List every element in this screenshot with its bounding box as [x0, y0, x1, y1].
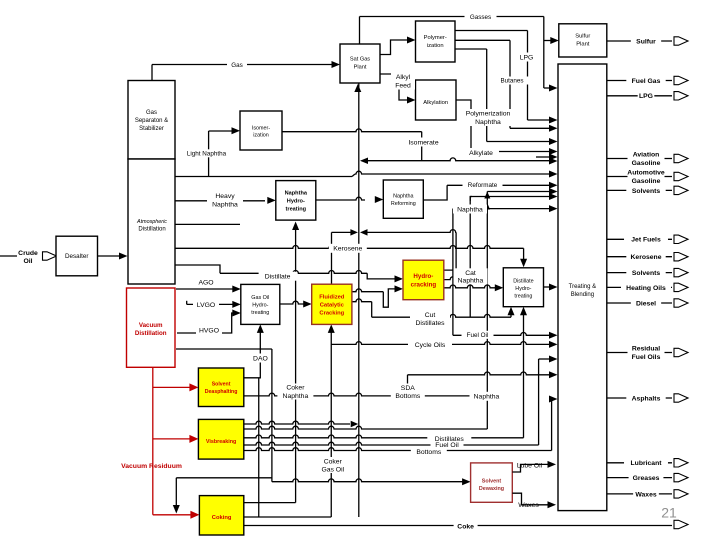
unit gas separation and stabilizer: [128, 81, 175, 160]
svg-text:Vacuum Residuum: Vacuum Residuum: [121, 463, 182, 470]
arrow alkyl feed into alkylation: [407, 97, 416, 104]
label output waxes: [633, 489, 659, 498]
arrow open output asphalts: [674, 394, 688, 402]
svg-text:Coke: Coke: [457, 524, 474, 531]
wire fuel gas feed into treating: [544, 87, 551, 89]
wire AGO: [176, 288, 233, 290]
arrow visbreaker gas into bus: [351, 421, 359, 428]
arrow naphtha into treating and blending: [549, 205, 558, 212]
wire output sulfur: [607, 40, 672, 42]
unit treating and blending: [558, 64, 607, 511]
wire polymerization naphtha drop: [486, 49, 488, 142]
arrow up naphtha join: [484, 192, 490, 199]
svg-text:Distillates: Distillates: [415, 320, 445, 327]
label output heating oils: [621, 283, 671, 292]
wire gas oil hydrotreated to fcc: [280, 301, 305, 304]
svg-text:Gas: Gas: [231, 62, 243, 69]
svg-text:Waxes: Waxes: [635, 491, 657, 498]
arrow gas bus up into sat gas plant: [354, 84, 361, 92]
svg-text:Polymer-: Polymer-: [424, 35, 447, 41]
label kerosene: [329, 244, 367, 253]
svg-text:Lubricant: Lubricant: [631, 460, 663, 467]
label coker naphtha: [277, 384, 313, 400]
wire distillate draw: [175, 265, 220, 273]
wire overhead long line to treating: [175, 176, 352, 178]
wire visbreaker naphtha row: [244, 426, 488, 429]
label output lubricant: [624, 458, 668, 467]
wire coker gas oil row: [244, 516, 332, 518]
svg-text:Oil: Oil: [23, 258, 32, 265]
wire deasphalted bottoms row: [244, 393, 487, 396]
arrow open output residual fuel oils: [674, 348, 688, 356]
label coker gas oil: [316, 457, 350, 473]
label output residual fuel oils: [628, 345, 665, 361]
svg-text:Gas Oil: Gas Oil: [251, 295, 269, 301]
arrow heavy naphtha into naphtha hydrotreating: [267, 197, 276, 204]
arrow red into coking: [190, 511, 199, 519]
svg-text:Hydro-: Hydro-: [413, 273, 433, 280]
arrow blend stub into treating and blending: [549, 154, 558, 161]
unit sat gas plant: [340, 44, 380, 83]
label vacuum residuum: [151, 465, 153, 467]
arrow open output lubricant: [674, 459, 688, 467]
svg-text:Sulfur: Sulfur: [575, 34, 590, 40]
wire naphtha blend riser: [486, 192, 488, 430]
wire coker naphtha row: [244, 502, 296, 504]
arrow overhead into treating and blending: [549, 171, 558, 178]
wire light naphtha riser: [208, 131, 210, 177]
arrow open output lpg: [674, 92, 688, 100]
arrow HVGO into gas oil hydrotreating: [232, 310, 241, 317]
wire residual riser: [538, 359, 540, 445]
label DAO: [250, 354, 270, 363]
svg-text:Greases: Greases: [633, 475, 660, 482]
wire LPG from polymerization: [455, 30, 528, 32]
svg-text:Naphtha: Naphtha: [475, 119, 501, 126]
svg-text:Residual: Residual: [632, 346, 660, 353]
label coke: [454, 522, 478, 531]
svg-text:Fuel Oils: Fuel Oils: [632, 354, 661, 361]
svg-text:Naphtha: Naphtha: [457, 206, 483, 213]
label naphtha lower: [470, 392, 504, 401]
svg-text:Solvents: Solvents: [632, 270, 661, 277]
wire asphalt riser: [551, 399, 553, 451]
arrow open output solvents: [674, 186, 688, 194]
arrow DAO up into gas oil hydrotreating: [257, 324, 264, 333]
svg-text:Coking: Coking: [212, 515, 232, 521]
wire stub from tower: [175, 223, 240, 225]
wire isomerate drop: [421, 132, 423, 161]
arrow fcc gas into bus: [350, 229, 358, 236]
svg-text:Light Naphtha: Light Naphtha: [187, 151, 227, 158]
label light naphtha: [182, 149, 232, 157]
wire isomerate collector: [362, 158, 551, 161]
label HVGO: [196, 326, 222, 334]
wire output kerosene: [607, 256, 672, 258]
svg-text:Reformate: Reformate: [468, 182, 498, 189]
svg-text:Naphtha: Naphtha: [285, 191, 308, 197]
svg-text:treating: treating: [286, 206, 307, 212]
svg-text:Naphtha: Naphtha: [474, 394, 500, 401]
wire vacuum residuum to visbreaking red: [153, 438, 192, 440]
label fuel oil lower: [431, 441, 464, 448]
wire hydrocracker to distillate hydrotreating: [444, 285, 497, 288]
wire kerosene drop to distillate hydrotreating: [523, 248, 525, 260]
svg-text:Naphtha: Naphtha: [458, 278, 484, 285]
svg-text:Sulfur: Sulfur: [636, 38, 656, 45]
wire sd bottoms drop: [258, 378, 260, 517]
svg-text:Plant: Plant: [576, 42, 590, 48]
wire coker naphtha riser: [295, 224, 297, 503]
label waxes mid: [515, 500, 542, 509]
wire output solvents: [607, 189, 672, 191]
wire HVGO: [177, 313, 233, 333]
svg-text:Feed: Feed: [395, 83, 411, 90]
arrow LPG into treating and blending: [549, 117, 558, 124]
wire reformate riser: [423, 185, 447, 200]
arrow polymerization naphtha into treating and blending: [549, 138, 558, 145]
wire output greases: [607, 477, 672, 479]
arrow red into visbreaking: [189, 435, 198, 443]
wire bottoms row: [244, 448, 552, 451]
label output aviation gasoline: [628, 151, 665, 167]
wire alkylate from alkylation: [456, 100, 471, 152]
label distillates: [427, 435, 471, 443]
svg-text:Desalter: Desalter: [65, 253, 88, 260]
unit isomerization: [240, 111, 282, 150]
svg-text:Butanes: Butanes: [500, 78, 523, 85]
svg-text:Jet Fuels: Jet Fuels: [631, 237, 661, 244]
unit polymerization: [416, 21, 456, 62]
arrow into naphtha reforming: [375, 196, 384, 203]
arrow open output jet fuels: [674, 235, 688, 243]
unit naphtha hydrotreating: [276, 181, 316, 221]
svg-text:Separaton &: Separaton &: [135, 118, 168, 124]
unit fluidized catalytic cracking: [312, 284, 352, 324]
svg-text:AGO: AGO: [198, 280, 213, 287]
wire fuel oil riser: [452, 209, 454, 336]
svg-text:Gasoline: Gasoline: [632, 160, 661, 167]
wire vacuum residuum to solvent deasphalting red: [153, 386, 192, 388]
arrow open output fuel gas: [674, 76, 688, 84]
unit solvent dewaxing: [471, 463, 513, 502]
arrow isomerate into gas bus: [360, 157, 368, 164]
wire fcc to hydrocracker: [352, 289, 383, 292]
wire hydrocracker gas to bus: [364, 230, 457, 233]
svg-text:ization: ization: [253, 132, 269, 138]
arrow open output sulfur: [674, 37, 688, 45]
wire output aviation gasoline: [607, 158, 672, 160]
wire waxes from solvent dewaxing: [512, 493, 548, 505]
wire vacuum residuum to coking red: [153, 514, 193, 516]
svg-text:Fuel Oil: Fuel Oil: [467, 332, 489, 339]
svg-text:HVGO: HVGO: [199, 328, 219, 335]
label fuel oil upper: [462, 331, 494, 339]
wire hydrocracker gas riser: [444, 232, 456, 270]
arrow LVGO into gas oil hydrotreating: [232, 301, 241, 308]
svg-text:Kerosene: Kerosene: [333, 246, 362, 253]
arrow naphtha blend into treating and blending: [549, 188, 558, 195]
svg-text:Cracking: Cracking: [319, 311, 344, 317]
wire output heating oils: [607, 286, 672, 288]
wire output jet fuels: [607, 238, 672, 240]
svg-text:treating: treating: [514, 293, 532, 299]
unit hydrocracking: [403, 260, 444, 300]
wire blend stub: [536, 156, 551, 158]
label output fuel gas: [626, 76, 665, 85]
arrow hydrocracker gas into bus: [360, 229, 368, 236]
arrow alkylate into treating and blending: [549, 148, 558, 155]
svg-text:Cycle Oils: Cycle Oils: [415, 342, 446, 349]
wire cut distillates from fcc: [352, 299, 372, 302]
svg-text:treating: treating: [251, 310, 269, 316]
svg-text:Polymerization: Polymerization: [466, 111, 511, 118]
arrow into polymerization: [407, 37, 416, 44]
svg-text:Automotive: Automotive: [627, 170, 665, 177]
svg-text:Diesel: Diesel: [636, 300, 656, 307]
node gas bus vertical: [358, 83, 360, 517]
wire fcc gas riser: [331, 232, 333, 284]
unit coking: [199, 496, 243, 535]
wire alkyl feed: [380, 74, 409, 100]
unit atmospheric distillation tower: [128, 159, 175, 284]
svg-text:Distillation: Distillation: [135, 330, 167, 337]
arrow fcc stream into hydrocracker: [395, 285, 404, 292]
unit sulfur plant: [559, 24, 607, 57]
wire lube oil from solvent dewaxing: [512, 464, 548, 472]
label output solvents: [626, 268, 665, 277]
arrow cycle oils into treating and blending: [549, 341, 558, 348]
wire cat naphtha from hydrocracker: [444, 277, 470, 280]
svg-text:Kerosene: Kerosene: [631, 254, 662, 261]
wire butanes from polymerization: [455, 39, 510, 41]
label output automotive gasoline: [628, 169, 665, 185]
wire distillates row: [244, 435, 524, 438]
wire recycle to coking row: [176, 477, 272, 479]
wire sulfur feed drop: [543, 17, 545, 89]
wire output residual fuel oils: [607, 352, 672, 354]
svg-text:Fuel Gas: Fuel Gas: [632, 78, 661, 85]
svg-text:Heavy: Heavy: [215, 193, 235, 200]
wire output solvents: [607, 272, 672, 274]
wire vacuum residuum main red: [152, 367, 154, 515]
arrow coke output: [674, 520, 688, 528]
svg-text:Fluidized: Fluidized: [319, 295, 345, 301]
wire overhead long line right part: [355, 171, 551, 174]
arrow into sulfur plant: [550, 37, 559, 44]
label cat naphtha: [454, 268, 488, 284]
svg-text:Blending: Blending: [571, 292, 594, 298]
wire polymerization naphtha from polymerization: [455, 48, 487, 50]
wire LPG drop: [527, 31, 529, 121]
wire cat naphtha blend hook: [470, 197, 472, 202]
svg-text:Reforming: Reforming: [391, 201, 416, 207]
arrow distillate hydrotreated into treating and blending: [549, 284, 558, 291]
wire output automotive gasoline: [607, 176, 672, 178]
wire sda bottoms riser: [407, 375, 409, 396]
label LPG: [517, 53, 537, 62]
wire reformate into treating: [447, 184, 550, 186]
svg-text:Deasphalting: Deasphalting: [205, 389, 238, 395]
svg-text:Alkylate: Alkylate: [469, 150, 493, 157]
arrow desalted crude into tower: [119, 253, 128, 260]
wire output diesel: [607, 302, 672, 304]
arrow open output automotive gasoline: [674, 172, 688, 180]
arrow up naphtha join lower: [485, 203, 491, 210]
svg-text:cracking: cracking: [411, 281, 437, 288]
label cycle oils: [408, 340, 452, 349]
svg-text:Crude: Crude: [18, 250, 38, 257]
svg-text:Bottoms: Bottoms: [395, 393, 421, 400]
wire crude oil line: [0, 255, 17, 257]
label bottoms: [411, 448, 447, 456]
wire sulfur feed branch: [544, 40, 552, 42]
label isomerate: [403, 138, 445, 147]
unit alkylation: [416, 80, 457, 120]
svg-text:Naphtha: Naphtha: [212, 202, 238, 209]
label polymerization naphtha: [462, 109, 514, 126]
label output asphalts: [626, 394, 665, 403]
arrow into distillate hydrotreating: [495, 284, 504, 291]
svg-text:Alkyl: Alkyl: [396, 74, 411, 81]
svg-text:Gasses: Gasses: [470, 14, 491, 21]
wire lube feed drop: [271, 349, 273, 482]
svg-text:Hydro-: Hydro-: [287, 198, 305, 204]
svg-text:Distillate: Distillate: [265, 274, 291, 281]
svg-text:Vacuum: Vacuum: [139, 322, 163, 329]
wire distillate step down: [367, 273, 396, 279]
wire output asphalts: [607, 397, 672, 399]
svg-text:Gas Oil: Gas Oil: [321, 466, 344, 473]
wire gas riser from gas separation top: [151, 65, 153, 82]
label output diesel: [631, 299, 661, 308]
wire naphtha hydrotreated to reformer: [316, 197, 365, 200]
svg-text:Solvent: Solvent: [482, 479, 502, 485]
arrow coker gas oil up into fcc: [328, 324, 335, 333]
arrow distillate into hydrocracker: [395, 275, 404, 282]
arrow butanes into treating and blending: [549, 125, 558, 132]
wire cycle oils: [331, 342, 550, 345]
wire coker naphtha blend line: [487, 191, 550, 193]
svg-text:Solvent: Solvent: [212, 382, 231, 388]
label alkylate: [463, 148, 499, 157]
unit gas oil hydrotreating: [241, 284, 280, 324]
arrow red into solvent deasphalting: [189, 383, 198, 391]
wire cut distillates: [372, 314, 511, 317]
svg-text:Bottoms: Bottoms: [416, 449, 442, 456]
svg-text:Distillate: Distillate: [513, 278, 533, 284]
svg-text:Heating Oils: Heating Oils: [626, 285, 666, 292]
arrow up into distillate hydrotreating bottom left: [508, 307, 515, 316]
svg-text:Stabilizer: Stabilizer: [139, 126, 164, 132]
wire output fuel gas: [607, 80, 672, 82]
label output lpg: [638, 91, 655, 100]
arrow fuel oil into treating and blending: [549, 332, 558, 339]
wire sat gas to polymerization: [380, 40, 409, 55]
svg-text:Gasoline: Gasoline: [632, 178, 661, 185]
label reformate: [463, 181, 503, 189]
svg-text:Plant: Plant: [354, 64, 367, 70]
wire fcc to hydrocracker dip: [383, 289, 396, 307]
arrow open output aviation gasoline: [674, 154, 688, 162]
wire gasses top line: [360, 16, 544, 18]
arrow cat naphtha into treating and blending: [549, 193, 558, 200]
arrow open output kerosene: [674, 253, 688, 261]
wire desalter outlet: [98, 255, 121, 257]
arrow asphalt into treating and blending: [549, 396, 558, 403]
svg-text:Alkylation: Alkylation: [423, 100, 448, 106]
arrow waxes into treating and blending: [548, 501, 557, 508]
svg-text:Asphalts: Asphalts: [632, 395, 661, 402]
label output sulfur: [631, 37, 661, 46]
label lube oil: [515, 461, 545, 470]
arrow into isomerization: [232, 127, 241, 134]
wire butanes drop: [509, 40, 511, 128]
arrow fuel gas into treating and blending: [549, 85, 558, 92]
wire lube feed from vacuum tower: [176, 348, 272, 350]
wire LPG into treating: [528, 119, 551, 121]
arrow residual into treating and blending: [549, 356, 558, 363]
wire visbreaker gas row: [244, 421, 350, 424]
wire fuel oil to treating: [453, 333, 551, 336]
wire DAO riser: [244, 329, 260, 378]
wire kerosene line: [175, 246, 524, 249]
label cut distillates: [410, 311, 450, 327]
arrow isomerate into treating and blending: [549, 158, 558, 165]
wire distillate hydrotreated to treating: [544, 286, 551, 288]
arrow open output heating oils: [674, 283, 688, 291]
label gas: [227, 61, 247, 69]
arrow into fluidized catalytic cracking: [303, 301, 312, 308]
wire coke line: [244, 525, 672, 527]
unit solvent deasphalting: [198, 368, 243, 407]
wire cut distillates step: [371, 302, 373, 318]
wire heavy naphtha: [175, 200, 265, 202]
svg-text:SDA: SDA: [401, 385, 415, 392]
svg-text:Visbreaking: Visbreaking: [206, 439, 236, 445]
wire lube oil row to solvent dewaxing: [272, 479, 464, 482]
label alkyl feed: [391, 73, 415, 90]
label butanes: [494, 77, 530, 85]
svg-text:Hydro-: Hydro-: [515, 286, 531, 292]
svg-text:Naphtha: Naphtha: [283, 393, 309, 400]
wire butanes into treating: [510, 127, 551, 129]
wire light naphtha to isomerization: [209, 130, 233, 132]
svg-text:Catalytic: Catalytic: [320, 303, 345, 309]
svg-text:Dewaxing: Dewaxing: [479, 486, 504, 492]
svg-text:Coker: Coker: [324, 458, 343, 465]
arrow sda bottoms into treating and blending: [549, 371, 558, 378]
svg-text:Gas: Gas: [146, 110, 157, 116]
svg-text:Treating &: Treating &: [569, 284, 596, 290]
svg-text:Hydro-: Hydro-: [252, 302, 268, 308]
wire gasses riser from sat gas plant top: [359, 17, 361, 45]
svg-text:Cat: Cat: [465, 270, 476, 277]
label output jet fuels: [624, 235, 668, 244]
arrow down into coking feed: [173, 505, 180, 514]
arrow AGO into gas oil hydrotreating: [232, 286, 241, 293]
svg-text:DAO: DAO: [253, 355, 268, 362]
unit distillate hydrotreating: [503, 268, 543, 307]
svg-text:LPG: LPG: [639, 93, 653, 100]
arrow coker naphtha up into naphtha hydrotreating: [292, 222, 299, 231]
arrow gas into sat gas plant: [332, 61, 341, 68]
wire residual into treating: [539, 358, 551, 360]
wire naphtha line: [453, 208, 551, 210]
wire LVGO: [187, 303, 233, 305]
arrow up into distillate hydrotreating bottom right: [520, 307, 527, 316]
svg-text:21: 21: [661, 504, 677, 520]
